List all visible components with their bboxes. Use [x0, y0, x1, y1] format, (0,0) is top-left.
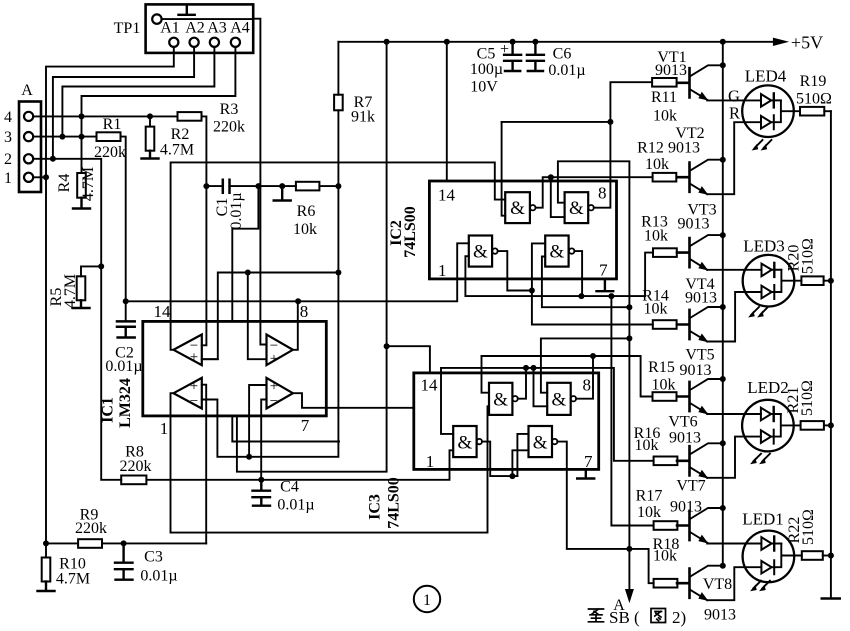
op-amp A3 triangle (bottom-left): [174, 378, 202, 409]
wire IC2 G1 output to W1 line and R12: [536, 177, 653, 208]
wire IC3 G1 out line to G3 input and R16: [441, 368, 654, 461]
svg-text:−: −: [190, 394, 198, 410]
svg-text:IC3: IC3: [367, 494, 384, 520]
svg-text:VT6: VT6: [668, 414, 697, 431]
svg-text:100µ: 100µ: [470, 61, 503, 78]
connector A box: [19, 102, 41, 193]
svg-text:14: 14: [421, 376, 439, 395]
wire IC2 G3 output elbow: [498, 251, 532, 290]
op4 minus input down to R8 node: [261, 400, 266, 480]
svg-text:7: 7: [599, 261, 608, 280]
svg-text:+: +: [270, 351, 278, 367]
svg-text:VT5: VT5: [685, 347, 714, 364]
IC3 gate G4 body: [529, 426, 553, 457]
svg-text:&: &: [533, 433, 548, 454]
svg-text:10k: 10k: [645, 156, 669, 173]
wire IC3 G1 upper input riser: [482, 356, 490, 393]
svg-text:10k: 10k: [644, 228, 668, 245]
svg-text:&: &: [552, 390, 567, 411]
svg-text:3: 3: [4, 129, 12, 146]
resistor R9 body: [78, 539, 102, 548]
wire A3 pad to connector row3: [62, 47, 214, 137]
svg-text:R1: R1: [103, 116, 122, 133]
connector pin circle 3: [24, 132, 33, 141]
svg-text:C6: C6: [553, 46, 572, 63]
resistor R10 body: [42, 558, 51, 582]
wire VT1 emitter to LED4 G: [707, 99, 761, 101]
svg-text:14: 14: [438, 186, 456, 205]
transistor VT5: [677, 382, 690, 411]
resistor R3 body: [178, 112, 202, 121]
wire TP1 internal bus: [162, 18, 254, 20]
op-amp A4 triangle (bottom-right): [267, 378, 293, 409]
wire C1 left: [206, 185, 222, 187]
ground IC2 pin7: [597, 279, 614, 291]
svg-text:10V: 10V: [470, 79, 498, 96]
wire R9 line: [46, 542, 206, 544]
wire R3 to C1 node then down to op1 inverting input: [202, 116, 207, 345]
wire IC2 G2 output riser to R11 net: [594, 82, 652, 208]
wire VT3 emitter to LED3 G: [707, 269, 761, 271]
IC1 box LM324: [143, 321, 326, 416]
wire A4 pad down to rows 4,3 and R4: [82, 47, 236, 173]
IC3 gate G1 bubble: [512, 396, 517, 401]
svg-text:510Ω: 510Ω: [799, 380, 816, 416]
svg-text:9013: 9013: [669, 430, 701, 447]
IC2 gate G4 bubble: [569, 248, 574, 253]
svg-text:510Ω: 510Ω: [800, 238, 817, 274]
wire IC2 G4 output down to G3 line: [574, 251, 582, 296]
ground R5: [73, 300, 90, 308]
svg-text:R11: R11: [651, 89, 677, 106]
svg-text:R12: R12: [637, 140, 664, 157]
wire R17 feed vertical from G3 line: [611, 296, 653, 525]
wire IC3 G4 lower input riser: [512, 450, 528, 476]
resistor R12 body: [653, 173, 677, 182]
connector pin circle 4: [24, 112, 33, 121]
transistor VT1: [677, 68, 690, 97]
svg-text:2: 2: [4, 151, 12, 168]
wire op amps plus-input line from divider: [202, 273, 339, 360]
wire row3 from connector to R1: [33, 136, 96, 138]
capacitor C2 plates: [117, 321, 135, 326]
wire R19 to right rail: [824, 110, 831, 112]
wire R22 to right rail: [823, 555, 831, 557]
svg-text:4: 4: [4, 109, 12, 126]
wire VT6 emitter up to LED2 R: [707, 437, 761, 478]
wire W1 drop to G2 lower input: [551, 177, 565, 217]
svg-text:LED3: LED3: [743, 237, 785, 256]
wire G3 out down to R14: [532, 291, 653, 325]
TP1 pad circle A3: [210, 38, 219, 47]
ground R6: [274, 186, 291, 200]
wire G1out net drop to G2 lower input: [534, 368, 548, 406]
transistor VT6: [677, 446, 690, 475]
wire VT7 emitter to LED1 G: [707, 543, 761, 545]
svg-text:+: +: [190, 350, 198, 366]
svg-text:0.01µ: 0.01µ: [105, 358, 142, 375]
svg-text:&: &: [458, 433, 473, 454]
wire op2 plus input riser: [248, 273, 267, 360]
ground C2: [118, 327, 135, 338]
+5V feed to IC2 pin14: [446, 42, 448, 181]
TP1 pad terminal circle: [152, 14, 161, 23]
op3 plus input down to R9 node: [202, 385, 206, 544]
wire IC3 G4 upper input riser: [517, 434, 528, 476]
IC2 box 74LS00: [429, 181, 616, 279]
wire C1 jog to IC1 area lower link: [232, 416, 339, 442]
op-amp A1 triangle (top-left): [174, 335, 202, 366]
svg-text:A1: A1: [160, 20, 180, 37]
svg-text:4.7M: 4.7M: [80, 167, 97, 201]
wire IC2 G2 upper input bracket to long trigger vertical: [558, 161, 630, 595]
svg-text:−: −: [270, 394, 278, 410]
+5V branch into IC3 pin14: [387, 346, 430, 373]
wire R8 line from body to IC3 G3 input: [146, 450, 453, 480]
capacitor C5 electrolytic: [504, 42, 521, 71]
svg-text:74LS00: 74LS00: [402, 206, 419, 258]
svg-text:A4: A4: [230, 20, 250, 37]
svg-text:R4: R4: [56, 174, 73, 193]
op2 output riser to long line: [293, 301, 298, 350]
+5V supply vertical to all collectors: [722, 42, 724, 566]
IC2 gate G3 body: [469, 236, 492, 267]
svg-text:10k: 10k: [652, 377, 676, 394]
svg-text:8: 8: [300, 302, 309, 321]
svg-text:R2: R2: [171, 126, 190, 143]
wire IC3 G4 output to R18 and SB line: [557, 442, 653, 584]
resistor R17 body: [654, 521, 678, 530]
op4 output through IC right edge into IC3 left edge: [293, 393, 414, 408]
svg-text:R19: R19: [800, 73, 827, 90]
wire long line C2 node / op2 output to IC2 G3 input: [126, 243, 469, 301]
svg-text:7: 7: [301, 416, 310, 435]
resistor R20 body: [801, 276, 823, 285]
svg-text:9013: 9013: [678, 216, 710, 233]
svg-text:R3: R3: [220, 101, 239, 118]
TP1 pad circle A2: [190, 38, 199, 47]
svg-text:VT8: VT8: [703, 576, 732, 593]
TP1 pad circle A4: [231, 38, 240, 47]
op4 plus input stub to divider line: [249, 385, 266, 457]
svg-text:2): 2): [672, 608, 686, 627]
transistor VT3: [677, 238, 690, 267]
svg-text:&: &: [473, 242, 488, 263]
svg-text:LM324: LM324: [117, 378, 134, 428]
svg-text:8: 8: [583, 376, 592, 395]
svg-text:C5: C5: [477, 46, 496, 63]
IC2 gate ampersands: [473, 198, 584, 263]
svg-text:7: 7: [584, 452, 593, 471]
svg-text:&: &: [510, 198, 525, 219]
svg-text:0.01µ: 0.01µ: [228, 192, 245, 229]
svg-text:1: 1: [160, 419, 169, 438]
IC2 gate G3 bubble: [492, 248, 497, 253]
svg-text:R17: R17: [636, 488, 663, 505]
svg-text:10k: 10k: [653, 108, 677, 125]
svg-text:9013: 9013: [685, 290, 717, 307]
svg-text:LED2: LED2: [747, 378, 789, 397]
IC3 gate G2 body: [547, 383, 571, 415]
resistor R21 body: [801, 421, 824, 430]
wire IC3 G1 output riser: [518, 368, 526, 399]
IC3 box 74LS00: [414, 373, 599, 470]
LED2 emission arrows: [754, 454, 770, 462]
capacitor C1 plates: [223, 180, 230, 193]
wire VT5 emitter to LED2 G: [707, 413, 761, 415]
wire A2 pad to connector row2: [53, 47, 194, 159]
svg-text:91k: 91k: [351, 109, 375, 126]
+5V rail: [338, 41, 773, 43]
svg-text:R15: R15: [648, 359, 675, 376]
svg-text:14: 14: [154, 302, 172, 321]
wire IC3 G3 output to G4 input: [482, 442, 518, 477]
resistor R18 body: [654, 579, 678, 588]
wire A1 pad to connector row1 and down left rail: [46, 47, 174, 544]
SB arrowhead: [626, 590, 634, 602]
wire R2 top: [149, 116, 151, 126]
svg-text:C3: C3: [144, 549, 163, 566]
ground R2: [142, 151, 159, 159]
wire VT2 emitter up to LED4 R: [707, 122, 761, 194]
right rail vertical: [830, 111, 832, 597]
resistor R1 body: [97, 132, 121, 141]
svg-text:0.01µ: 0.01µ: [277, 497, 314, 514]
svg-text:&: &: [569, 198, 584, 219]
svg-text:&: &: [493, 390, 508, 411]
touch panel TP1 box: [146, 4, 254, 53]
wire VT8 emitter up to LED1 R: [707, 567, 761, 600]
IC3 gate G2 bubble: [571, 396, 576, 401]
svg-text:10k: 10k: [293, 221, 317, 238]
ground R4: [73, 198, 90, 209]
resistor R6 body: [296, 182, 320, 191]
svg-text:1: 1: [4, 170, 12, 187]
LED1 emission arrows: [754, 581, 770, 589]
wire R7 divider vertical down to comparator references: [202, 110, 339, 457]
LED3 dual-color LED: [743, 255, 795, 307]
IC3 gate ampersands: [458, 390, 567, 454]
connector pin circle 2: [24, 154, 33, 163]
IC3 gate G4 bubble: [552, 439, 557, 444]
svg-text:220k: 220k: [94, 144, 126, 161]
wire G3 out up to G4 upper input: [532, 243, 545, 290]
svg-text:A3: A3: [207, 20, 227, 37]
IC2 gate G1 body: [505, 192, 530, 223]
svg-text:220k: 220k: [213, 119, 245, 136]
wire R21 to right rail: [824, 424, 831, 426]
ground bottom right: [822, 597, 840, 600]
svg-text:IC1: IC1: [100, 397, 117, 423]
IC2 gate G2 bubble: [588, 205, 593, 210]
svg-text:1: 1: [423, 592, 431, 609]
resistor R14 body: [653, 320, 677, 329]
svg-text:+: +: [500, 41, 509, 58]
svg-text:4.7M: 4.7M: [160, 142, 194, 159]
hanzi zhi (to) glyph: [589, 609, 604, 622]
svg-text:74LS00: 74LS00: [386, 477, 403, 529]
svg-text:+: +: [270, 379, 278, 395]
resistor R4 body: [77, 173, 86, 198]
resistor R2 body: [146, 127, 155, 151]
wire G2out net across to G1: [502, 121, 611, 123]
wire IC3 G2 output line to G1 input and R15: [482, 356, 653, 399]
wire IC2 G1 in b from G2 output net: [502, 122, 506, 216]
transistor VT4: [677, 310, 690, 339]
op3 output down and across to IC3 gate G1 input: [171, 393, 490, 532]
resistor R15 body: [653, 392, 677, 401]
resistor R16 body: [654, 457, 678, 466]
svg-text:0.01µ: 0.01µ: [548, 62, 585, 79]
capacitor C4: [253, 480, 271, 506]
resistor R19 body: [800, 107, 824, 116]
TP1 pad circle A1: [169, 38, 178, 47]
IC2 gate G4 body: [545, 236, 568, 267]
wire row1 from connector: [33, 176, 46, 178]
LED4 emission arrows: [755, 140, 771, 148]
svg-text:C4: C4: [280, 479, 299, 496]
capacitor C3: [115, 543, 133, 579]
svg-text:8: 8: [598, 184, 607, 203]
IC3 gate G3 body: [453, 426, 476, 457]
svg-text:A: A: [21, 82, 33, 99]
svg-text:9013: 9013: [670, 499, 702, 516]
wire R1 to C2 node vertical: [121, 137, 126, 322]
svg-text:0.01µ: 0.01µ: [140, 568, 177, 585]
wire VT4 emitter up to LED3 R: [707, 292, 761, 342]
wire C1 node jog down toward IC1: [232, 186, 258, 321]
TP1 touch plate symbol: [179, 6, 195, 15]
svg-text:TP1: TP1: [114, 20, 141, 37]
hanzi tu (figure) glyph: [651, 609, 666, 623]
op amp polarity signs: [190, 338, 278, 410]
svg-text:SB (: SB (: [609, 608, 640, 627]
circled figure number 1: [414, 586, 440, 612]
svg-text:4.7M: 4.7M: [56, 571, 90, 588]
wire IC2 G4 lower input down to trigger vertical: [542, 257, 630, 308]
svg-text:+5V: +5V: [791, 33, 823, 53]
wire R20 to right rail: [824, 280, 831, 282]
op1 plus input stub: [202, 358, 218, 360]
LED4 dual-color LED: [742, 85, 794, 137]
wire rail to R7: [337, 42, 339, 95]
resistor R11 body: [652, 78, 677, 87]
svg-text:+: +: [190, 379, 198, 395]
LED3 emission arrows: [752, 307, 768, 315]
IC2 gate G1 bubble: [530, 205, 535, 210]
ground R10: [38, 582, 55, 592]
op1 output up and across to IC2 gate G1 input: [171, 162, 506, 349]
transistor VT7: [677, 511, 690, 540]
svg-text:220k: 220k: [120, 458, 152, 475]
wire IC3 G2 upper input to trigger vertical: [541, 338, 630, 392]
wire row2 from connector down to R8: [33, 159, 121, 480]
svg-text:1: 1: [438, 261, 447, 280]
wire C1 right to R6 and jog down: [230, 185, 296, 187]
svg-text:9013: 9013: [655, 62, 687, 79]
connector pin circle 1: [24, 173, 33, 182]
IC3 gate G1 body: [489, 383, 512, 415]
IC2 gate G2 body: [565, 192, 589, 223]
svg-text:10k: 10k: [637, 504, 661, 521]
svg-text:9013: 9013: [680, 362, 712, 379]
svg-text:510Ω: 510Ω: [800, 509, 817, 545]
wire R6 right to divider: [319, 185, 338, 187]
LED1 dual-color LED: [743, 531, 795, 583]
resistor R13 body: [653, 248, 677, 257]
op-amp A2 triangle (top-right): [267, 335, 293, 366]
svg-text:LED4: LED4: [745, 67, 787, 86]
+5V arrowhead: [773, 38, 789, 46]
svg-text:510Ω: 510Ω: [796, 91, 832, 108]
wire IC2 G3 in b line to G4 output and R13: [465, 253, 653, 297]
svg-text:10k: 10k: [653, 548, 677, 565]
resistor R8 body: [121, 476, 146, 485]
resistor R7 body: [334, 95, 343, 111]
+5V feed down left of IC3 to IC1 power pin: [237, 42, 387, 472]
svg-text:10k: 10k: [644, 301, 668, 318]
ground IC3 pin7: [577, 469, 594, 478]
IC3 gate G3 bubble: [477, 439, 482, 444]
capacitor C6: [527, 42, 544, 71]
svg-text:&: &: [550, 242, 565, 263]
resistor R22 body: [802, 551, 823, 560]
transistor VT8: [677, 569, 690, 598]
svg-text:9013: 9013: [704, 607, 736, 624]
wire TP1 to node C1 (vertical, op2 inverting input): [253, 19, 266, 345]
wire row4 from connector through R2 node to R3: [33, 115, 177, 117]
svg-text:9013: 9013: [668, 140, 700, 157]
svg-text:1: 1: [426, 452, 435, 471]
svg-text:LED1: LED1: [742, 510, 784, 529]
svg-text:4.7M: 4.7M: [62, 274, 79, 308]
wire R10 top: [45, 543, 47, 557]
transistor VT2: [677, 163, 690, 192]
svg-text:A2: A2: [185, 20, 205, 37]
svg-text:VT7: VT7: [676, 478, 705, 495]
resistor R5 body: [77, 276, 86, 300]
svg-text:R: R: [729, 104, 740, 123]
svg-text:R6: R6: [297, 203, 316, 220]
wire R5 top to row2 rail: [81, 266, 101, 276]
LED2 dual-color LED: [742, 400, 794, 452]
svg-text:220k: 220k: [75, 520, 107, 537]
svg-text:10k: 10k: [635, 437, 659, 454]
